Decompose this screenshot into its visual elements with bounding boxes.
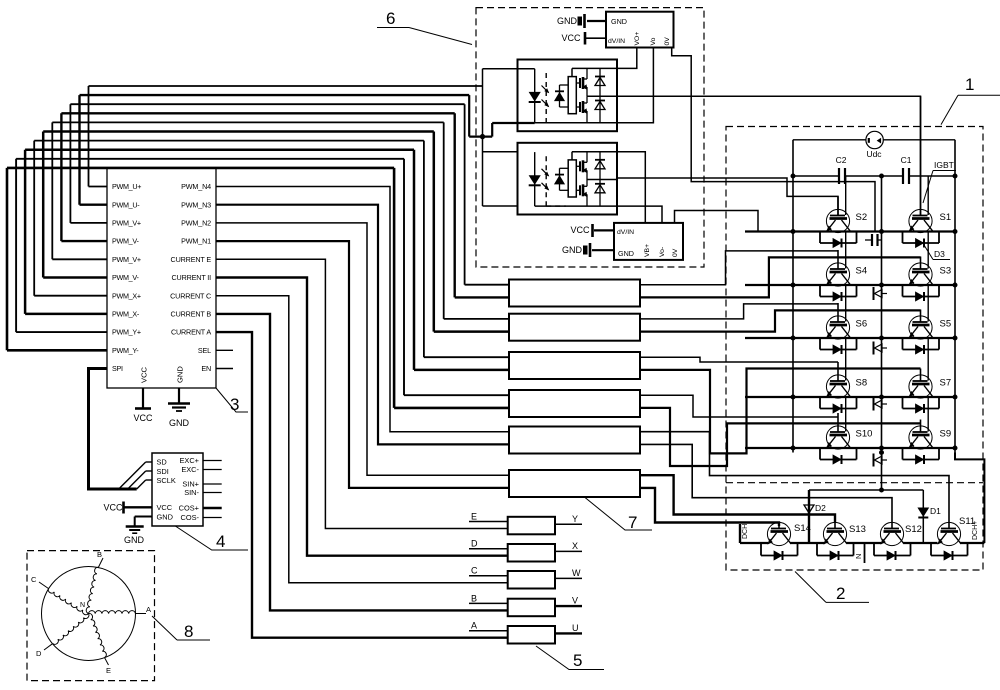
svg-text:D2: D2: [815, 503, 826, 513]
svg-text:S5: S5: [940, 319, 952, 330]
svg-text:6: 6: [386, 9, 395, 28]
svg-text:GND: GND: [157, 513, 173, 522]
svg-text:W: W: [572, 568, 581, 578]
wire PWM bundle horizontal 5: [52, 121, 443, 123]
svg-text:VCC: VCC: [157, 503, 173, 512]
svg-text:VCC: VCC: [140, 366, 149, 383]
svg-text:D1: D1: [930, 506, 941, 516]
motor winding E: [89, 613, 112, 675]
freewheel diode of S14: [761, 543, 798, 560]
interface box A-U (block 5): [508, 626, 555, 644]
interface box C-W (block 5): [508, 571, 555, 589]
transistor S6: [826, 285, 867, 339]
capacitor C1: [901, 155, 955, 184]
ground symbol below U3: [168, 388, 190, 428]
phase rail row 3: [745, 336, 957, 340]
VCC terminal of U4: [103, 502, 152, 514]
transistor S14: [767, 522, 791, 545]
label 4 leader: [175, 526, 248, 551]
clamp diode 2 on middle rail: [874, 342, 888, 355]
svg-text:V: V: [572, 596, 578, 606]
svg-text:GND: GND: [557, 16, 578, 26]
wire PWM bundle vertical 10: [7, 168, 107, 350]
svg-text:GND: GND: [176, 366, 185, 383]
transistor S4: [826, 232, 867, 287]
isolated supply box (bottom): [614, 223, 683, 260]
transistor S9: [909, 397, 951, 449]
interface box B-V (block 5): [508, 599, 555, 617]
svg-text:GND: GND: [124, 535, 145, 545]
svg-text:A: A: [146, 605, 151, 614]
dashed box 8 (motor): [27, 551, 155, 681]
wire PWM bundle horizontal 2: [80, 94, 470, 96]
right DC rail: [954, 140, 956, 453]
freewheel diode of S3: [903, 285, 940, 301]
interface box E-Y (block 5): [508, 517, 555, 535]
wire opto2 rail to VB+: [617, 152, 645, 223]
wire PWM bundle vertical 5: [52, 122, 107, 259]
wire bundle line 3 drop: [465, 104, 509, 285]
svg-text:PWM_N1: PWM_N1: [181, 237, 211, 246]
motor winding D: [36, 614, 89, 659]
terminal label E: [469, 511, 508, 521]
wire PWM_N3 route: [216, 205, 509, 445]
wire driver3 lower out to S7 gate: [640, 369, 921, 454]
clamp diode 4 on middle rail: [874, 454, 888, 467]
transistor S11: [937, 522, 961, 545]
GND terminal of bottom supply: [562, 243, 614, 257]
wire PWM bundle vertical 6: [43, 132, 107, 278]
wire SEL stub: [216, 349, 233, 351]
svg-text:VB+: VB+: [644, 244, 651, 257]
freewheel diode of S8: [820, 397, 857, 413]
svg-text:N: N: [80, 602, 85, 609]
wire PWM bundle horizontal 10: [7, 167, 394, 170]
freewheel diode of S10: [820, 448, 857, 464]
wire to opto2 upper input: [483, 151, 519, 153]
wire driver4 lower out to S9 gate: [640, 408, 921, 466]
wire CURRENT B route: [216, 314, 508, 611]
junction dots on C row: [791, 174, 957, 178]
U4 pin labels: [157, 456, 200, 522]
svg-text:S13: S13: [849, 524, 866, 535]
svg-text:C2: C2: [836, 155, 847, 165]
dashed box 6 (driver unit): [476, 8, 704, 267]
clamp diode 1 on middle rail: [874, 287, 888, 300]
svg-text:S7: S7: [940, 378, 952, 389]
svg-text:PWM_V-: PWM_V-: [112, 237, 139, 246]
svg-text:0V: 0V: [672, 248, 679, 257]
wire opto2 output to S2 gate: [617, 178, 838, 216]
wire VO+ to opto1 rail: [617, 48, 637, 69]
svg-text:VCC: VCC: [561, 33, 581, 43]
svg-text:VCC: VCC: [103, 503, 123, 513]
DCH+ connection from right rail: [955, 453, 984, 544]
terminal label V: [555, 596, 582, 606]
svg-text:PWM_N2: PWM_N2: [181, 219, 211, 228]
driver box row 5 (block 7): [509, 427, 640, 454]
terminal label B: [469, 593, 508, 603]
svg-text:GND: GND: [618, 249, 634, 258]
svg-text:CURRENT C: CURRENT C: [170, 291, 211, 300]
svg-text:dV/IN: dV/IN: [617, 229, 634, 236]
wire PWM bundle vertical 4: [61, 113, 107, 241]
diode D2: [804, 490, 826, 543]
svg-text:SDI: SDI: [157, 467, 169, 476]
wire PWM bundle horizontal 1: [89, 85, 483, 87]
transistor S12: [880, 522, 904, 545]
svg-text:SCLK: SCLK: [157, 476, 176, 485]
VCC supply below U3: [133, 388, 153, 423]
freewheel diode of S4: [820, 285, 857, 301]
svg-text:SEL: SEL: [198, 346, 211, 355]
wire driver1 upper out to S4 gate: [640, 251, 838, 285]
driver box row 4 (block 7): [509, 390, 640, 417]
wire bundle line 5 drop: [444, 122, 509, 319]
wire PWM_N4 route: [216, 187, 509, 432]
svg-text:DCH+: DCH+: [972, 521, 979, 540]
svg-text:EXC+: EXC+: [179, 456, 199, 465]
svg-text:CURRENT II: CURRENT II: [172, 273, 212, 282]
wire PWM bundle vertical 3: [70, 104, 107, 223]
motor winding C: [31, 575, 89, 615]
svg-text:5: 5: [573, 651, 582, 670]
svg-text:2: 2: [836, 584, 845, 603]
wire PWM bundle horizontal 8: [25, 148, 414, 151]
dashed divider of block 2: [726, 482, 983, 484]
wire PWM bundle horizontal 9: [16, 158, 404, 160]
wire PWM bundle horizontal 7: [34, 140, 424, 142]
wire PWM bundle horizontal 6: [43, 130, 434, 133]
svg-text:B: B: [471, 593, 477, 603]
svg-text:Vo: Vo: [650, 37, 657, 45]
label 1 leader: [941, 75, 1000, 125]
svg-text:S12: S12: [905, 524, 922, 535]
motor winding B: [86, 550, 103, 614]
transistor S7: [909, 338, 951, 398]
svg-text:S10: S10: [856, 429, 873, 440]
wire CURRENT C route: [216, 296, 508, 583]
wire L2 jog into opto inputs: [469, 95, 535, 137]
svg-text:EXC-: EXC-: [181, 465, 199, 474]
label IGBT leader: [923, 160, 956, 203]
svg-text:D3: D3: [934, 249, 945, 259]
svg-text:GND: GND: [611, 17, 627, 26]
svg-text:N: N: [854, 554, 863, 559]
svg-text:C1: C1: [901, 155, 912, 165]
terminal label C: [469, 566, 508, 576]
svg-text:3: 3: [230, 395, 239, 414]
svg-text:COS-: COS-: [181, 513, 200, 522]
terminal label D: [469, 539, 508, 549]
svg-text:C: C: [31, 575, 37, 584]
driver box row 1 (block 7): [509, 280, 640, 307]
wire driver1 lower out to S3 gate: [640, 257, 921, 297]
label 3 leader: [216, 388, 248, 414]
wire PWM bundle vertical 8: [25, 150, 107, 314]
svg-text:1: 1: [965, 75, 974, 94]
svg-text:S3: S3: [940, 266, 952, 277]
wire bundle line 7 drop: [424, 141, 509, 358]
svg-text:COS+: COS+: [179, 504, 199, 513]
clamp diode 3 on middle rail: [874, 398, 888, 411]
wire driver2 lower out to S5 gate: [640, 310, 921, 331]
svg-text:4: 4: [216, 532, 225, 551]
terminal label U: [555, 623, 582, 633]
wire opto1 output to S1 gate: [617, 96, 921, 215]
freewheel diode of S6: [820, 338, 857, 354]
svg-text:D: D: [36, 649, 42, 658]
wire driver4 upper out to S10 gate: [640, 395, 838, 417]
svg-text:7: 7: [628, 513, 637, 532]
svg-text:PWM_Y-: PWM_Y-: [112, 346, 139, 355]
wire PWM_N1 route: [216, 241, 509, 488]
supply top labels: [608, 17, 671, 46]
interface box D-X (block 5): [508, 544, 555, 562]
wire CURRENT E route: [216, 259, 508, 528]
U3 right pin labels: [170, 182, 211, 373]
svg-text:GND: GND: [169, 418, 190, 428]
svg-text:S4: S4: [856, 266, 868, 277]
opto gate driver 1 (block 6): [518, 60, 618, 132]
svg-text:0V: 0V: [664, 37, 671, 46]
freewheel diode of S9: [903, 448, 940, 464]
middle clamp rail: [881, 176, 883, 490]
svg-text:D: D: [471, 539, 478, 549]
motor winding A: [89, 605, 152, 614]
svg-text:CURRENT B: CURRENT B: [171, 310, 212, 319]
svg-text:SPI: SPI: [112, 364, 123, 373]
dashed box 1 (inverter): [726, 127, 983, 571]
GND terminal of top supply: [557, 14, 606, 28]
wire driver6 upper out to S13 gate: [640, 475, 835, 523]
freewheel diode of S1: [903, 232, 940, 248]
label 2 leader: [795, 572, 869, 604]
DCH- terminal: [740, 521, 749, 543]
isolated supply box (top): [606, 12, 674, 48]
source Udc: [793, 131, 955, 159]
wire PWM bundle vertical 9: [16, 159, 107, 332]
svg-text:U: U: [572, 623, 579, 633]
svg-text:PWM_V-: PWM_V-: [112, 273, 139, 282]
svg-text:A: A: [471, 621, 477, 631]
diode D1: [918, 490, 941, 543]
svg-text:8: 8: [184, 622, 193, 641]
wire driver5 lower out to S12 gate: [640, 444, 892, 523]
VCC terminal of top supply: [561, 32, 606, 45]
wire bundle line 6 drop: [434, 132, 509, 332]
freewheel diode of S13: [817, 543, 854, 560]
svg-text:PWM_N3: PWM_N3: [181, 200, 211, 209]
transistor S1: [909, 96, 951, 232]
svg-text:PWM_V+: PWM_V+: [112, 219, 141, 228]
clamp capacitor between row1 and row2: [865, 234, 882, 246]
wire bundle line 9 drop: [404, 159, 509, 395]
svg-text:S2: S2: [856, 212, 868, 223]
svg-text:X: X: [572, 541, 578, 551]
svg-text:PWM_X+: PWM_X+: [112, 291, 141, 300]
svg-text:E: E: [106, 666, 111, 675]
terminal label A: [469, 621, 508, 631]
wire PWM bundle vertical 1: [89, 86, 108, 187]
wire 0V bottom supply to S2 emitter: [675, 211, 759, 232]
wire opto2 0V rail to Vo-: [617, 206, 662, 223]
wire Vo to opto1 0V rail: [617, 48, 653, 123]
wire CURRENT A route: [216, 332, 508, 638]
wire PWM bundle vertical 2: [80, 95, 108, 205]
label 6 leader: [377, 9, 472, 45]
supply bottom labels: [617, 229, 679, 258]
freewheel diode of S5: [903, 338, 940, 354]
transistor S2: [826, 176, 867, 233]
svg-text:Vo-: Vo-: [659, 247, 666, 257]
terminal label X: [555, 541, 582, 551]
ground symbol of U4: [124, 517, 152, 546]
svg-text:VCC: VCC: [570, 225, 590, 235]
wire bundle line 4 drop: [455, 113, 509, 297]
phase rail row 5: [745, 446, 957, 450]
freewheel diode of S2: [820, 232, 857, 248]
svg-text:CURRENT E: CURRENT E: [171, 255, 212, 264]
phase rail row 2: [745, 283, 957, 287]
wire driver5 upper out to S11 gate: [640, 432, 949, 523]
svg-text:C: C: [471, 566, 478, 576]
capacitor C2: [793, 155, 903, 184]
wire CURRENT II route: [216, 278, 508, 556]
wire bundle line 8 drop: [414, 150, 509, 370]
transistor S8: [826, 338, 867, 398]
svg-text:Y: Y: [572, 514, 578, 524]
wire SPI bus to resolver chip: [89, 369, 153, 490]
svg-text:SD: SD: [157, 458, 167, 467]
bottom emitter rail segments: [740, 542, 984, 544]
driver box row 3 (block 7): [509, 352, 640, 379]
terminal label W: [555, 568, 582, 578]
freewheel diode of S12: [874, 543, 911, 560]
freewheel diode of S7: [903, 397, 940, 413]
wire L1 into opto input (driver block): [483, 69, 535, 206]
svg-text:PWM_N4: PWM_N4: [181, 182, 211, 191]
svg-text:dV/IN: dV/IN: [608, 38, 625, 45]
svg-text:Udc: Udc: [866, 149, 882, 159]
label D3 leader: [924, 245, 950, 260]
svg-text:SIN-: SIN-: [184, 488, 199, 497]
svg-text:CURRENT A: CURRENT A: [171, 328, 211, 337]
left DC rail: [792, 140, 794, 453]
label 7 leader: [585, 498, 652, 533]
freewheel diode of S11: [931, 543, 968, 560]
U4 right stubs: [203, 461, 222, 518]
svg-text:DCH-: DCH-: [742, 521, 749, 539]
wire clamp line D2-D1: [809, 451, 923, 493]
svg-text:EN: EN: [201, 364, 211, 373]
wire 0V of top supply to S1 emitter: [672, 48, 875, 232]
svg-text:E: E: [471, 511, 477, 521]
wire EN stub: [216, 368, 233, 370]
terminal label Y: [555, 514, 582, 524]
wire PWM bundle vertical 7: [34, 141, 107, 296]
transistor S5: [909, 285, 951, 339]
wire driver3 upper out to S8 gate: [640, 357, 838, 362]
svg-text:IGBT: IGBT: [934, 160, 954, 170]
wire bundle line 10 drop: [394, 168, 509, 408]
svg-text:B: B: [97, 550, 102, 559]
transistor S3: [909, 232, 951, 287]
svg-text:S6: S6: [856, 319, 868, 330]
svg-text:PWM_Y+: PWM_Y+: [112, 328, 141, 337]
resolver IC U4 box: [152, 453, 203, 526]
svg-text:PWM_X-: PWM_X-: [112, 310, 140, 319]
transistor S10: [826, 397, 872, 449]
VCC terminal of bottom supply: [570, 224, 614, 237]
svg-text:PWM_U+: PWM_U+: [112, 182, 141, 191]
wire driver2 upper out to S6 gate: [640, 304, 838, 319]
svg-text:PWM_V+: PWM_V+: [112, 255, 141, 264]
label 5 leader: [536, 646, 604, 670]
svg-text:VO+: VO+: [634, 32, 641, 46]
wire to opto2 lower input: [483, 205, 519, 207]
svg-text:S9: S9: [940, 429, 952, 440]
junction at opto input bus: [480, 134, 484, 138]
labels bottom row transistors: [794, 516, 975, 535]
phase rail row 4: [745, 395, 957, 399]
U3 left pin labels: [112, 182, 141, 373]
svg-text:GND: GND: [562, 245, 583, 255]
opto gate driver 2 (block 6): [518, 143, 618, 215]
wire driver6 lower out to S14 gate: [640, 488, 779, 526]
transistor S13: [823, 522, 847, 545]
wire PWM bundle horizontal 3: [70, 103, 464, 105]
driver box row 6 (block 7): [509, 470, 640, 497]
wire PWM bundle horizontal 4: [61, 112, 454, 114]
wire PWM_N2 route: [216, 223, 509, 475]
svg-text:VCC: VCC: [133, 413, 153, 423]
svg-text:PWM_U-: PWM_U-: [112, 200, 140, 209]
phase rail row 1: [745, 230, 957, 234]
neutral N stub: [854, 543, 865, 563]
controller IC U3 box: [107, 168, 216, 388]
driver box row 2 (block 7): [509, 314, 640, 341]
svg-text:S1: S1: [940, 212, 952, 223]
svg-text:S8: S8: [856, 378, 868, 389]
motor stator circle: [42, 567, 136, 661]
label 8 leader: [152, 616, 210, 641]
